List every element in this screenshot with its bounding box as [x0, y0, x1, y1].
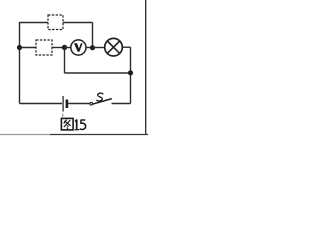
switch S [90, 93, 112, 105]
wire: vertical from junction down to shunt wire [64, 48, 66, 74]
wire: shunt horizontal wire [65, 72, 131, 74]
lamp L (circle with X) [105, 38, 123, 56]
wire: top branch left segment [20, 22, 49, 24]
node: junction dot on right vertical [128, 70, 133, 75]
wire: bottom left segment to battery [20, 103, 63, 105]
wire: junction to voltmeter [65, 47, 72, 49]
dashed box placeholder 2 (middle branch) [36, 40, 52, 55]
wire: voltmeter to node [86, 47, 93, 49]
dashed box placeholder 1 (top branch) [48, 15, 63, 30]
wire: switch to bottom right corner [112, 103, 131, 105]
wire: dashed box 2 to junction [52, 47, 65, 49]
voltmeter V [71, 40, 86, 55]
wire: vertical from top branch down to voltmeter node [92, 23, 94, 48]
wire: right vertical [130, 47, 132, 103]
node: junction dot at voltmeter right [90, 45, 95, 50]
frame: bottom rule (fades to the left) [0, 134, 148, 136]
battery cell [63, 96, 67, 112]
stray scan tick below battery [62, 114, 64, 118]
wire: top branch right segment [63, 22, 93, 24]
frame: right border line [145, 0, 147, 135]
wire: middle branch to dashed box 2 [20, 47, 37, 49]
caption 图15 [61, 118, 85, 129]
wire: battery to switch [68, 103, 90, 105]
wire: node to lamp [93, 47, 105, 49]
wire: lamp to right corner [122, 46, 130, 48]
wire: left vertical [19, 22, 21, 104]
node: junction dot before voltmeter [62, 45, 67, 50]
node: junction dot left (main branch tap) [17, 45, 22, 50]
